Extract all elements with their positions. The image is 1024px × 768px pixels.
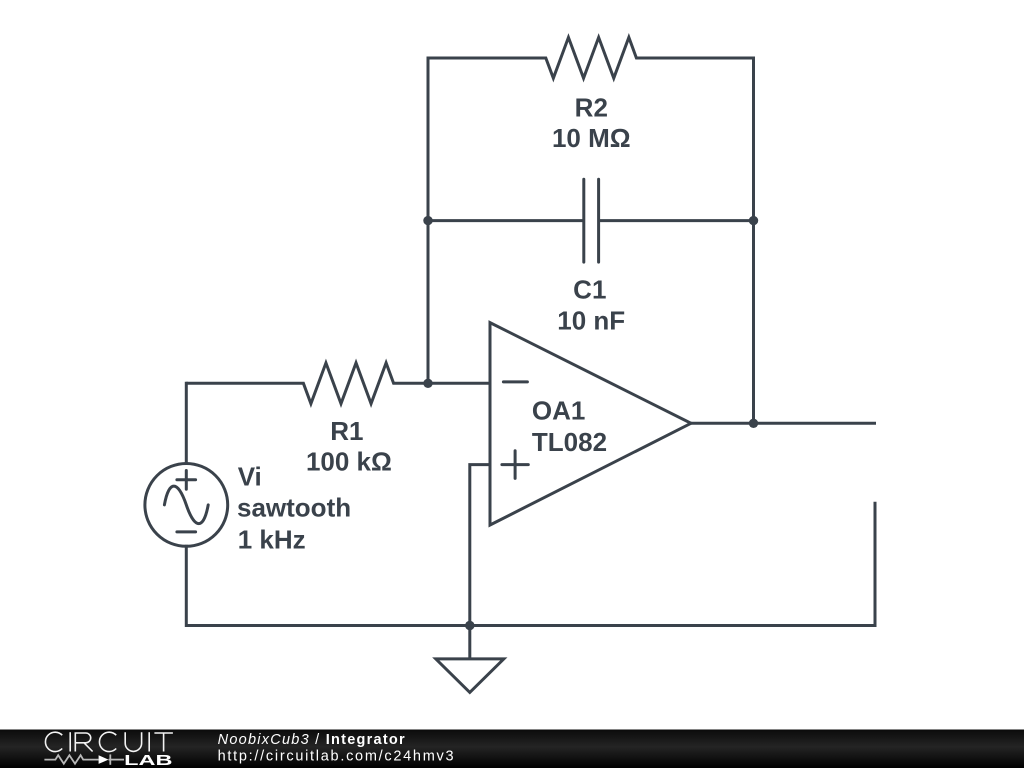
- op-amp OA1 triangle: [490, 323, 691, 525]
- svg-text:10 MΩ: 10 MΩ: [552, 123, 631, 153]
- op-amp minus input mark: [503, 380, 527, 383]
- wire op-amp plus input to ground: [470, 465, 490, 626]
- svg-text:Vi: Vi: [238, 461, 262, 491]
- svg-text:10 nF: 10 nF: [557, 306, 625, 336]
- voltage source V1 (Vi): [145, 383, 228, 625]
- capacitor C1: [428, 179, 754, 262]
- node dot ground: [465, 621, 474, 630]
- svg-text:R2: R2: [575, 92, 608, 122]
- resistor R1: [186, 363, 490, 404]
- wire top-right vertical (feedback right): [752, 58, 755, 423]
- wire op-amp output: [691, 422, 876, 425]
- node dot inverting input: [423, 379, 432, 388]
- op-amp plus input mark: [502, 451, 528, 479]
- node dot output: [749, 419, 758, 428]
- ground: [436, 626, 504, 693]
- logo resistor-diode glyph: [44, 754, 124, 764]
- svg-text:1 kHz: 1 kHz: [238, 524, 306, 554]
- svg-text:LAB: LAB: [124, 752, 173, 768]
- svg-text:100 kΩ: 100 kΩ: [306, 447, 392, 477]
- node dot C1 left: [423, 216, 432, 225]
- node dot C1 right: [749, 216, 758, 225]
- svg-text:NoobixCub3 / Integrator: NoobixCub3 / Integrator: [218, 732, 406, 748]
- footer bar: [0, 730, 1024, 768]
- wire bottom rail: [186, 624, 875, 627]
- svg-text:TL082: TL082: [532, 427, 607, 457]
- svg-text:OA1: OA1: [532, 395, 585, 425]
- svg-text:R1: R1: [330, 416, 363, 446]
- resistor R2: [428, 37, 754, 78]
- logo diode triangle: [99, 755, 109, 764]
- wire top-left vertical (feedback left): [427, 58, 430, 383]
- logo CIRCUIT lettering: [45, 732, 172, 751]
- svg-text:C1: C1: [573, 274, 606, 304]
- svg-text:http://circuitlab.com/c24hmv3: http://circuitlab.com/c24hmv3: [218, 748, 456, 764]
- svg-text:sawtooth: sawtooth: [237, 492, 351, 522]
- wire right stub: [874, 503, 877, 625]
